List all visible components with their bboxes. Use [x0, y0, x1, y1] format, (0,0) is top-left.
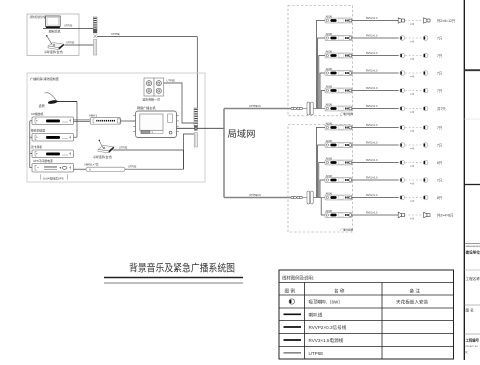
svg-text:× 6: × 6	[410, 92, 414, 96]
horn speaker	[424, 18, 430, 23]
ceiling speaker	[423, 106, 428, 111]
svg-text:× 6: × 6	[410, 164, 414, 168]
svg-text:7只: 7只	[437, 126, 443, 130]
title block frame	[464, 0, 480, 360]
svg-text:RVV2×1.0: RVV2×1.0	[366, 194, 378, 197]
svg-text:AV06: AV06	[326, 174, 333, 178]
svg-text:7只: 7只	[437, 36, 443, 40]
volume module AV-3	[325, 156, 352, 165]
riser wire bundle	[316, 128, 325, 216]
svg-text:喇叭线: 喇叭线	[309, 311, 323, 318]
ceiling speaker	[400, 160, 405, 165]
svg-text:UTP5E×6: UTP5E×6	[249, 193, 261, 197]
svg-text:RVV2×1.0: RVV2×1.0	[366, 124, 378, 127]
entry wire to module	[313, 108, 325, 110]
monitor PC1	[46, 16, 61, 33]
svg-text:× 6: × 6	[410, 217, 414, 221]
svg-text:广播机房/消防控制室: 广播机房/消防控制室	[30, 76, 59, 81]
legend line speaker-wire	[284, 311, 323, 318]
ceiling speaker	[400, 71, 405, 76]
dashed run	[405, 180, 423, 186]
svg-text:RVV3×1.5电源线: RVV3×1.5电源线	[309, 337, 344, 344]
power feed bus (left)	[30, 121, 32, 168]
legend line UTP	[284, 351, 324, 356]
floor distribution box	[288, 125, 354, 233]
svg-text:图 例: 图 例	[285, 287, 296, 294]
volume module AV-1	[325, 14, 352, 23]
horn speaker	[398, 18, 404, 23]
entry connectors	[291, 107, 307, 109]
svg-text:× 6: × 6	[410, 147, 414, 151]
legend line RVV	[284, 337, 344, 344]
wire to speakers	[352, 124, 399, 128]
svg-text:AV06: AV06	[326, 49, 333, 53]
dashed run	[405, 109, 423, 115]
svg-text:AV06: AV06	[326, 156, 333, 160]
UPS rating bracket	[41, 174, 68, 180]
svg-text:UTP5E: UTP5E	[167, 78, 176, 82]
svg-text:RVVP2×0.3信号线: RVVP2×0.3信号线	[309, 324, 347, 331]
svg-text:RVV2×1.0: RVV2×1.0	[366, 17, 378, 20]
legend line RVVP	[284, 324, 347, 331]
wire to speakers	[352, 52, 399, 56]
svg-text:UTP5E: UTP5E	[128, 165, 137, 169]
control room enclosure	[27, 14, 79, 56]
svg-text:AV06: AV06	[326, 209, 333, 213]
svg-text:AV06: AV06	[326, 102, 333, 106]
volume module AV-5	[325, 84, 352, 93]
cable tray riser T1	[93, 17, 97, 55]
svg-text:× 6: × 6	[410, 182, 414, 186]
wire mixer to host	[121, 120, 136, 122]
wire pill to riser	[113, 134, 195, 169]
svg-text:广播分线箱: 广播分线箱	[341, 111, 354, 115]
drawing title	[104, 262, 243, 284]
svg-text:寻呼话筒(台式): 寻呼话筒(台式)	[93, 154, 112, 159]
volume module AV-6	[325, 102, 352, 111]
wire to speakers	[352, 17, 399, 21]
microphone M1	[39, 93, 59, 108]
svg-text:PROJECT NO.: PROJECT NO.	[466, 346, 479, 348]
svg-text:× 6: × 6	[410, 199, 414, 203]
wire UPS to junction pill	[74, 168, 87, 170]
volume module AV-6	[325, 209, 352, 218]
svg-text:RVV2×1.0: RVV2×1.0	[366, 159, 378, 162]
svg-text:AV06: AV06	[326, 191, 333, 195]
svg-text:外2×6=12只: 外2×6=12只	[437, 18, 456, 23]
svg-text:名 称: 名 称	[334, 287, 345, 294]
volume module AV-1	[325, 121, 352, 130]
svg-text:线材图例及说明:: 线材图例及说明:	[282, 275, 314, 282]
ceiling speaker	[423, 71, 428, 76]
LAN trunk riser	[224, 109, 255, 198]
svg-text:UTP5E: UTP5E	[64, 24, 73, 28]
cable tray riser T2	[194, 108, 198, 147]
svg-text:图 名: 图 名	[466, 308, 475, 313]
dashed run	[405, 198, 423, 204]
svg-text:寻呼话筒(台式): 寻呼话筒(台式)	[44, 49, 63, 54]
entry wire to module	[313, 197, 325, 199]
svg-text:RVV2×1.0: RVV2×1.0	[366, 87, 378, 90]
wire to speakers	[352, 69, 399, 73]
svg-text:AV06: AV06	[326, 139, 333, 143]
dashed run	[405, 128, 423, 134]
wire to speakers	[352, 194, 399, 198]
svg-text:7只: 7只	[437, 89, 443, 93]
ceiling speaker	[423, 195, 428, 200]
wire MIC1 to riser tray	[65, 40, 94, 45]
svg-text:7只: 7只	[437, 143, 443, 147]
svg-text:RVV2×1.0: RVV2×1.0	[366, 52, 378, 55]
ceiling speaker	[400, 178, 405, 183]
ceiling speaker	[423, 125, 428, 130]
isolator bars	[307, 191, 313, 204]
svg-text:7只: 7只	[437, 54, 443, 58]
ceiling speaker	[400, 125, 405, 130]
paging console MIC2	[93, 140, 114, 160]
source unit U3 双卡座机	[31, 145, 74, 157]
wire to speakers	[352, 159, 399, 163]
svg-text:AV06: AV06	[326, 84, 333, 88]
wire host to LAN riser	[177, 127, 225, 129]
LAN branch lower	[224, 193, 291, 198]
svg-text:RVV2×1.0: RVV2×1.0	[366, 176, 378, 179]
pre-amp mixer AM8-1	[89, 113, 121, 124]
wire riser T1 to machine-room riser	[97, 32, 197, 37]
svg-text:UTP5E×6: UTP5E×6	[249, 104, 261, 108]
svg-text:建设单位: 建设单位	[465, 249, 480, 254]
svg-text:天花板嵌入安装: 天花板嵌入安装	[396, 299, 429, 306]
ceiling speaker	[400, 53, 405, 58]
wire PC1 to riser tray	[43, 24, 93, 29]
svg-text:RVV2×1.0: RVV2×1.0	[366, 211, 378, 214]
source unit U1 CD播放机	[31, 112, 74, 124]
svg-text:× 6: × 6	[410, 22, 414, 26]
svg-text:广播分线箱: 广播分线箱	[341, 228, 354, 232]
svg-text:NBW1×7芯: NBW1×7芯	[85, 163, 99, 167]
wire to speakers	[352, 211, 399, 215]
ceiling speaker	[400, 36, 405, 41]
wire to speakers	[352, 176, 399, 180]
svg-text:SHANGHAI DESIGN: SHANGHAI DESIGN	[466, 245, 480, 248]
svg-text:AV06: AV06	[326, 14, 333, 18]
svg-text:外2×4=8只: 外2×4=8只	[437, 212, 454, 217]
ceiling speaker	[400, 88, 405, 93]
audio source bus (right)	[74, 102, 78, 138]
legend table	[279, 270, 454, 359]
svg-text:AV06: AV06	[326, 67, 333, 71]
svg-text:RVV2×1.0: RVV2×1.0	[366, 141, 378, 144]
entry connectors	[291, 196, 307, 198]
broadcast machine room enclosure	[27, 73, 205, 182]
monitor loudspeaker box SP-M	[143, 78, 164, 102]
horn speaker	[398, 212, 404, 217]
ceiling speaker	[423, 88, 428, 93]
svg-text:双卡座机: 双卡座机	[31, 145, 42, 149]
svg-text:监听音箱一对: 监听音箱一对	[143, 97, 160, 102]
dashed run	[405, 215, 423, 221]
svg-text:工程编号: 工程编号	[466, 338, 480, 343]
isolator bars	[307, 102, 313, 115]
svg-text:局域网: 局域网	[228, 128, 256, 139]
svg-text:× 6: × 6	[410, 110, 414, 114]
svg-text:× 6: × 6	[410, 75, 414, 79]
title block texts	[465, 245, 480, 354]
volume module AV-5	[325, 191, 352, 200]
volume module AV-4	[325, 174, 352, 183]
svg-text:RVV2×1.0: RVV2×1.0	[366, 69, 378, 72]
wire M1 to source bus	[57, 101, 77, 103]
svg-text:数码调谐器: 数码调谐器	[31, 129, 45, 133]
legend row speaker	[309, 299, 429, 306]
svg-text:备 注: 备 注	[410, 287, 421, 294]
wire to speakers	[352, 141, 399, 145]
junction box NBW pill	[85, 163, 126, 172]
ceiling speaker	[400, 106, 405, 111]
svg-text:CD播放机: CD播放机	[31, 112, 44, 116]
svg-text:RVV2×1.0: RVV2×1.0	[366, 105, 378, 108]
svg-text:共7只: 共7只	[437, 106, 446, 111]
svg-text:AM8-1: AM8-1	[89, 113, 98, 117]
svg-text:网络广播主机: 网络广播主机	[137, 105, 156, 110]
twin audio pair to mixer	[74, 120, 91, 122]
legend ceiling speaker symbol	[289, 299, 294, 304]
dashed run	[405, 38, 423, 44]
wire MIC2	[113, 145, 184, 150]
dashed run	[405, 145, 423, 151]
ceiling speaker	[423, 53, 428, 58]
svg-text:× 6: × 6	[410, 129, 414, 133]
source unit U2 数码调谐器	[31, 129, 74, 141]
volume module AV-3	[325, 49, 352, 58]
wire to speakers	[352, 87, 399, 91]
svg-text:AV06: AV06	[326, 32, 333, 36]
LAN branch upper	[224, 104, 291, 109]
riser wire bundle	[316, 21, 325, 109]
svg-text:7只: 7只	[437, 178, 443, 182]
horn speaker	[424, 212, 430, 217]
UPS power unit	[32, 159, 74, 172]
dashed run	[405, 21, 423, 27]
wire to speakers	[352, 105, 399, 109]
dashed run	[405, 73, 423, 79]
dashed run	[405, 91, 423, 97]
svg-text:AV06: AV06	[326, 121, 333, 125]
ceiling speaker	[400, 143, 405, 148]
svg-text:UTP5E: UTP5E	[309, 351, 324, 356]
svg-text:工程名称: 工程名称	[466, 276, 480, 281]
svg-text:RVV2×1.0: RVV2×1.0	[366, 34, 378, 37]
ceiling speaker	[400, 195, 405, 200]
dashed run	[405, 56, 423, 62]
volume module AV-4	[325, 67, 352, 76]
svg-text:6只: 6只	[437, 161, 443, 165]
svg-text:1kVA在线式UPS: 1kVA在线式UPS	[43, 176, 64, 180]
svg-text:背景音乐及紧急广播系统图: 背景音乐及紧急广播系统图	[129, 262, 235, 275]
svg-text:× 6: × 6	[410, 40, 414, 44]
svg-text:UTP5E: UTP5E	[119, 145, 128, 149]
svg-text:控制主机: 控制主机	[49, 28, 61, 33]
svg-text:UPS不间断电源: UPS不间断电源	[33, 159, 53, 163]
svg-text:A: A	[89, 168, 91, 172]
ceiling speaker	[423, 36, 428, 41]
ceiling speaker	[423, 178, 428, 183]
svg-text:× 6: × 6	[410, 57, 414, 61]
svg-text:UTP5E: UTP5E	[111, 32, 120, 36]
wire monitor speakers to tray	[164, 78, 194, 123]
ceiling speaker	[423, 143, 428, 148]
svg-text:7只: 7只	[437, 71, 443, 75]
paging console MIC1	[44, 35, 64, 54]
volume module AV-2	[325, 32, 352, 41]
wire to speakers	[352, 34, 399, 38]
svg-text:话筒: 话筒	[39, 103, 45, 108]
ceiling speaker	[423, 160, 428, 165]
svg-text:UTP5E: UTP5E	[66, 40, 75, 44]
broadcast host HOST1	[133, 105, 179, 137]
riser wire down into machine room	[196, 37, 198, 129]
volume module AV-2	[325, 139, 352, 148]
dashed run	[405, 163, 423, 169]
svg-text:吸顶喇叭（6W）: 吸顶喇叭（6W）	[309, 299, 343, 306]
svg-text:8只: 8只	[437, 196, 443, 200]
floor distribution box	[288, 6, 354, 116]
